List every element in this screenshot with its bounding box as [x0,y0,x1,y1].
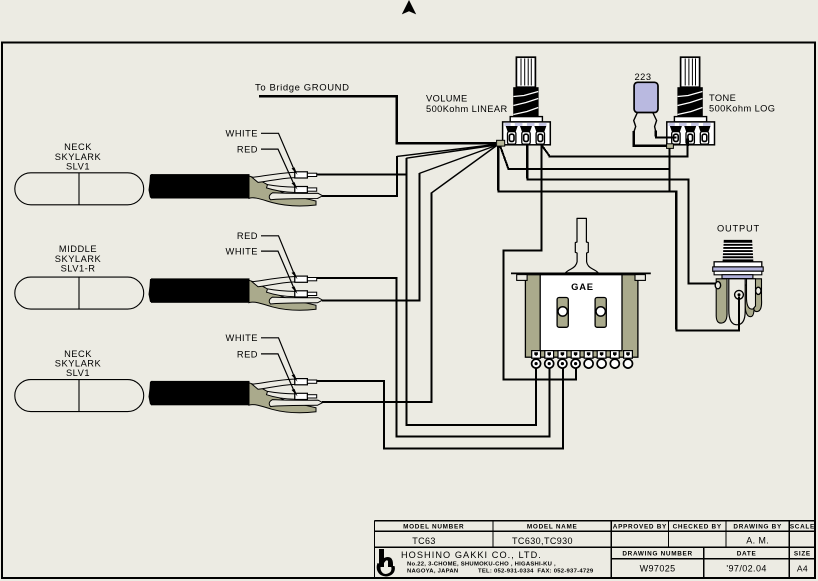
svg-text:OUTPUT: OUTPUT [717,223,760,233]
pickup MIDDLE SLV1-R label [55,244,102,274]
svg-text:SKYLARK: SKYLARK [55,152,102,162]
capacitor left leg to tone crimp [634,113,638,133]
pickup NECK SLV1 label [55,142,102,172]
label WHITE wire [226,247,298,294]
potentiometer VOLUME 500Kohm LINEAR [503,57,551,145]
svg-text:223: 223 [634,72,651,82]
volume pot ground crimp [497,140,505,146]
title block grid [375,521,816,579]
svg-text:TEL: 052-931-0334 FAX: 052-93: TEL: 052-931-0334 FAX: 052-937-4729 [478,568,594,574]
selector switch body GAE [525,275,638,358]
label WHITE wire [226,129,298,175]
svg-text:CHECKED BY: CHECKED BY [673,524,722,531]
wire shield pickup2 to ground [322,173,420,301]
pickup cable SLV1 [149,379,323,413]
wire volume lug3 to switch terminal T4 [502,146,576,381]
wire into tone lug1 and lug2 overlays [666,138,688,146]
svg-text:MIDDLE: MIDDLE [59,244,97,254]
selector switch terminals [532,351,633,369]
svg-text:DRAWING BY: DRAWING BY [733,524,782,531]
svg-text:WHITE: WHITE [226,129,258,139]
label RED wire [237,349,298,396]
svg-text:SKYLARK: SKYLARK [55,254,102,264]
pickup NECK SLV1 body [15,380,144,412]
ground bus wire [259,95,496,143]
wire volume crimp to tone crimp ground link [500,146,670,192]
svg-text:VOLUME: VOLUME [426,94,468,104]
svg-text:HOSHINO GAKKI CO., LTD.: HOSHINO GAKKI CO., LTD. [401,550,542,560]
svg-text:A. M.: A. M. [746,536,769,546]
svg-text:MODEL NAME: MODEL NAME [527,524,578,531]
svg-text:RED: RED [237,349,258,359]
svg-text:TC63: TC63 [412,536,436,546]
selector switch lever [565,218,598,273]
svg-text:500Kohm LINEAR: 500Kohm LINEAR [426,104,508,114]
svg-text:To Bridge GROUND: To Bridge GROUND [255,83,350,94]
label RED wire [237,231,298,279]
svg-text:'97/02.04: '97/02.04 [726,564,766,574]
wire pickup3 white to switch terminal T3 [317,364,564,450]
svg-text:TONE: TONE [709,93,736,103]
pickup cable SLV1 [149,172,323,206]
wire shield pickup3 to ground [322,193,432,402]
potentiometer TONE 500Kohm LOG [667,57,715,145]
tone pot ground crimp [667,144,674,149]
svg-text:500Kohm LOG: 500Kohm LOG [709,103,775,113]
svg-text:DRAWING NUMBER: DRAWING NUMBER [622,550,693,557]
selector switch mounting plate [511,273,651,280]
svg-text:NECK: NECK [64,349,92,359]
svg-text:SLV1: SLV1 [66,162,90,172]
pickup MIDDLE SLV1-R body [15,277,144,309]
svg-text:GAE: GAE [571,281,594,292]
north arrow marker [402,0,416,14]
capacitor C 223 body [634,82,658,112]
svg-text:RED: RED [237,145,258,155]
svg-text:SLV1: SLV1 [66,368,90,378]
company address [407,561,594,574]
svg-text:MODEL NUMBER: MODEL NUMBER [403,524,464,531]
wire ground vertical to switch terminal T1 [405,158,536,426]
svg-text:RED: RED [237,231,258,241]
svg-text:A4: A4 [797,563,808,573]
wire volume lug2 to output jack tip [526,146,716,284]
svg-text:SCALE: SCALE [790,524,815,531]
wire pickup1 white to ground vertical [317,174,407,176]
wire pickup2 red to switch terminal T2 [317,277,550,437]
wire volume crimp ground to output jack sleeve [497,146,739,332]
svg-text:WHITE: WHITE [226,333,258,343]
svg-text:WHITE: WHITE [226,247,258,257]
svg-text:NAGOYA, JAPAN: NAGOYA, JAPAN [407,568,458,574]
wire shield pickup1 to ground [322,156,398,196]
pickup NECK SLV1 label [55,349,102,378]
svg-text:No.22, 3-CHOME, SHUMOKU-CHO ,: No.22, 3-CHOME, SHUMOKU-CHO , HIGASHI-KU… [407,561,556,567]
Hoshino Gakki logo [377,549,395,577]
pickup cable SLV1-R [149,276,323,310]
svg-text:DATE: DATE [737,550,757,557]
svg-text:APPROVED BY: APPROVED BY [613,524,667,531]
svg-text:NECK: NECK [64,142,92,152]
volume pot label [426,94,508,114]
svg-text:SLV1-R: SLV1-R [61,264,96,274]
title block headers [403,524,815,558]
label RED wire [237,145,298,190]
output jack [713,240,764,325]
wire ends into jack lugs [705,283,739,331]
wire volume lug3 to tone lug2 [542,146,688,158]
svg-text:W97025: W97025 [640,564,676,574]
label WHITE wire [226,333,298,382]
svg-text:TC630,TC930: TC630,TC930 [512,536,573,546]
wire fan diagonals from volume pot ground crimp [397,145,496,194]
svg-text:SIZE: SIZE [794,550,811,557]
pickup NECK SLV1 body [15,173,144,205]
capacitor right leg to tone lug1 [653,113,657,133]
tone pot label [709,93,775,113]
